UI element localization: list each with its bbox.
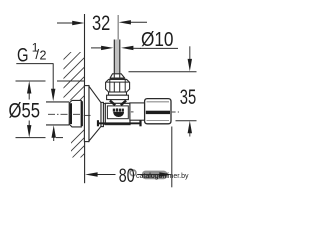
dimension D55: up arrow: [27, 81, 31, 100]
fitting cap on body: [107, 95, 129, 99]
dimension 35: top extension line: [129, 71, 197, 73]
compression nut: [106, 79, 130, 92]
body bottom thick line with end nubs: [97, 122, 141, 124]
dimension 35: bottom outside arrow: [188, 121, 192, 137]
dimension D55: bottom extension line: [16, 137, 46, 139]
svg-text:35: 35: [180, 85, 196, 109]
fitting neck: [109, 92, 127, 95]
inlet nut: [69, 100, 81, 127]
watermark logo circle: [130, 170, 136, 176]
dimension 32: left outside arrow: [57, 21, 85, 25]
inlet nut thick left face: [70, 103, 72, 124]
logo mark: [113, 109, 115, 112]
wall face lower line / extension line of 80: [84, 142, 86, 184]
dimension 35: bottom extension line: [176, 120, 197, 122]
svg-text:Ø55: Ø55: [9, 99, 41, 123]
handle knob top and bottom inner lines: [147, 101, 170, 103]
dimension 80: right arrow: [138, 172, 172, 176]
funnel wedges at body top: [110, 101, 115, 106]
wall face upper line / extension line of 32: [84, 14, 86, 87]
handle knob dark band: [146, 111, 170, 114]
extension line of 32 at pipe axis (gray): [118, 15, 119, 41]
thread label G 1/2: leader line and down arrow: [16, 63, 55, 101]
valve stem: [130, 103, 145, 120]
dimension 32: right outside arrow: [119, 20, 147, 24]
svg-text:2: 2: [40, 49, 47, 63]
wall hatching upper: [40, 3, 120, 159]
copper pipe: gray fill: [115, 40, 119, 75]
compression olive: [110, 74, 125, 78]
dimension 80: left arrow: [85, 172, 115, 176]
threaded shank (open left end): [46, 103, 69, 125]
centerline dash in stem: [131, 111, 134, 113]
watermark blob: [142, 171, 167, 180]
dimension D55: top extension line: [16, 80, 46, 82]
centerline horizontal (dash-dot): [48, 113, 83, 115]
escutcheon disc: [84, 86, 89, 142]
dimension D10: left arrow: [91, 46, 113, 50]
svg-text:Ø10: Ø10: [141, 28, 174, 51]
dimension D55: down arrow: [27, 121, 31, 138]
logo box: [107, 106, 128, 119]
escutcheon front rim: [101, 102, 103, 126]
copper pipe: right wall: [119, 40, 120, 75]
valve body neck connector lines: [103, 103, 105, 105]
centerline right of knob (dash-dot): [172, 111, 176, 113]
inlet nut thick right face: [81, 101, 83, 126]
valve body: [105, 103, 130, 124]
handle knob: [145, 99, 171, 124]
wall hatching lower: [60, 74, 140, 202]
thread label G 1/2: up arrow at shank bottom: [52, 125, 56, 141]
svg-text:80: 80: [119, 165, 135, 187]
dimension 35: top outside arrow: [188, 46, 192, 71]
svg-text:32: 32: [92, 11, 110, 35]
copper pipe: left wall: [114, 40, 115, 75]
svg-text:G: G: [17, 44, 29, 66]
centerline through escutcheon: [84, 114, 91, 116]
escutcheon cone: [89, 86, 101, 141]
dimension 80: right extension line: [171, 127, 173, 188]
dimension D10: right arrow and leader: [121, 46, 141, 50]
